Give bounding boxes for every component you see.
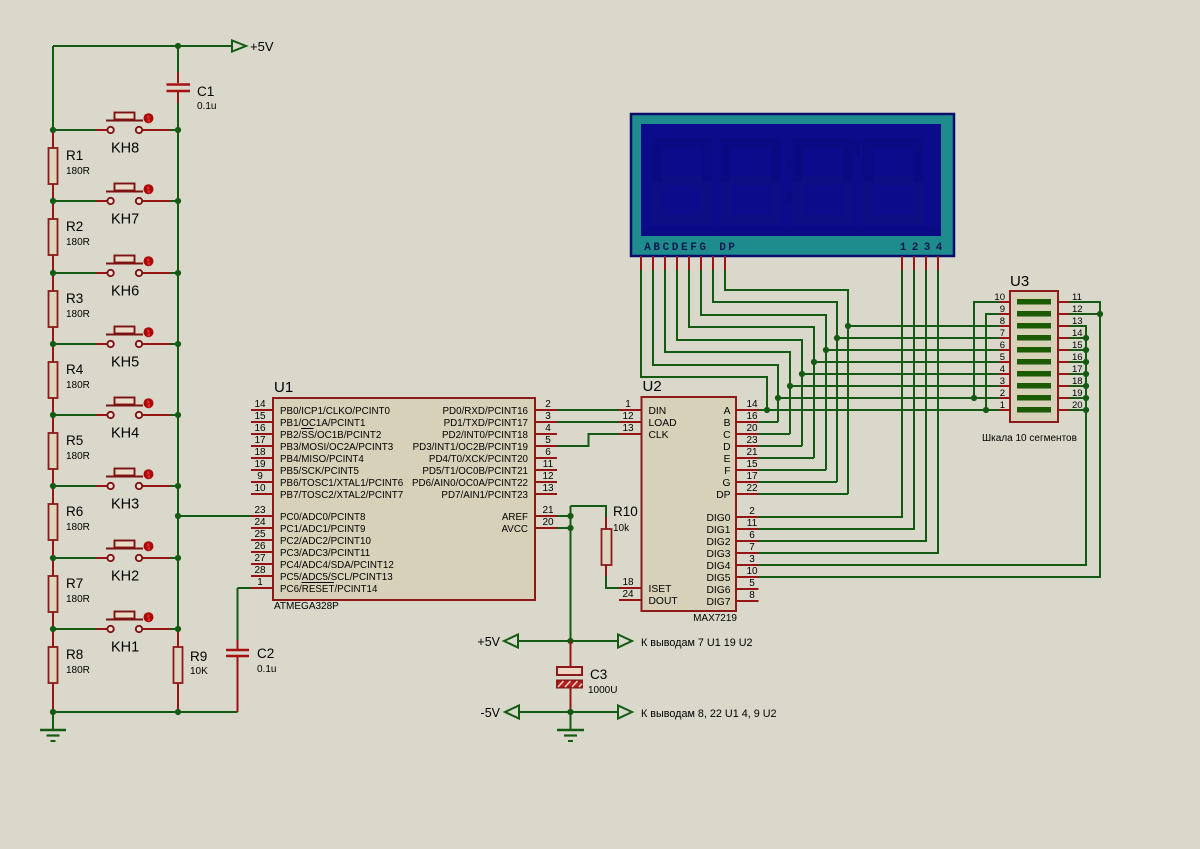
svg-text:24: 24 — [622, 589, 634, 600]
svg-text:B: B — [724, 418, 731, 429]
svg-text:180R: 180R — [66, 665, 90, 676]
svg-text:К выводам 8, 22 U1 4, 9 U2: К выводам 8, 22 U1 4, 9 U2 — [641, 708, 777, 720]
svg-text:3: 3 — [924, 242, 931, 254]
svg-text:AVCC: AVCC — [502, 524, 529, 535]
svg-text:R5: R5 — [66, 433, 83, 448]
svg-text:CLK: CLK — [649, 430, 669, 441]
svg-text:PC0/ADC0/PCINT8: PC0/ADC0/PCINT8 — [280, 512, 366, 523]
svg-text:10k: 10k — [613, 523, 630, 534]
svg-text:C: C — [663, 242, 670, 254]
svg-text:1: 1 — [625, 399, 631, 410]
svg-text:9: 9 — [257, 471, 263, 482]
svg-text:G: G — [722, 478, 730, 489]
svg-text:23: 23 — [254, 505, 266, 516]
svg-text:1: 1 — [1000, 400, 1005, 411]
svg-text:7: 7 — [749, 542, 755, 553]
svg-text:180R: 180R — [66, 380, 90, 391]
svg-text:R10: R10 — [613, 504, 638, 519]
svg-text:PB2/SS/OC1B/PCINT2: PB2/SS/OC1B/PCINT2 — [280, 430, 381, 441]
svg-text:U2: U2 — [643, 378, 662, 395]
svg-text:3: 3 — [545, 411, 551, 422]
svg-text:R7: R7 — [66, 576, 83, 591]
svg-text:180R: 180R — [66, 594, 90, 605]
svg-text:25: 25 — [254, 529, 266, 540]
svg-text:DOUT: DOUT — [649, 596, 679, 607]
svg-text:Шкала 10 сегментов: Шкала 10 сегментов — [982, 433, 1077, 444]
svg-text:5: 5 — [1000, 352, 1005, 363]
svg-text:13: 13 — [622, 423, 634, 434]
svg-text:3: 3 — [1000, 376, 1005, 387]
svg-text:1: 1 — [257, 577, 263, 588]
svg-text:7: 7 — [1000, 328, 1005, 339]
svg-text:PC5/ADC5/SCL/PCINT13: PC5/ADC5/SCL/PCINT13 — [280, 572, 393, 583]
svg-text:PD3/INT1/OC2B/PCINT19: PD3/INT1/OC2B/PCINT19 — [413, 442, 528, 453]
svg-text:PC6/RESET/PCINT14: PC6/RESET/PCINT14 — [280, 584, 378, 595]
svg-text:PD4/T0/XCK/PCINT20: PD4/T0/XCK/PCINT20 — [429, 454, 529, 465]
svg-text:DIG7: DIG7 — [706, 597, 730, 608]
svg-text:DIG4: DIG4 — [706, 561, 730, 572]
svg-text:DIG6: DIG6 — [706, 585, 730, 596]
svg-text:PB1/OC1A/PCINT1: PB1/OC1A/PCINT1 — [280, 418, 365, 429]
svg-text:20: 20 — [746, 423, 758, 434]
svg-text:6: 6 — [1000, 340, 1005, 351]
svg-text:22: 22 — [746, 483, 758, 494]
svg-text:PC1/ADC1/PCINT9: PC1/ADC1/PCINT9 — [280, 524, 365, 535]
svg-text:180R: 180R — [66, 166, 90, 177]
svg-text:DIG0: DIG0 — [706, 513, 730, 524]
svg-text:16: 16 — [254, 423, 266, 434]
svg-text:DP: DP — [716, 490, 730, 501]
svg-text:KH2: KH2 — [111, 569, 139, 585]
svg-text:180R: 180R — [66, 522, 90, 533]
svg-text:2: 2 — [1000, 388, 1005, 399]
svg-text:R2: R2 — [66, 219, 83, 234]
svg-text:28: 28 — [254, 565, 266, 576]
svg-text:DIG5: DIG5 — [706, 573, 730, 584]
svg-text:10: 10 — [746, 566, 758, 577]
svg-text:10: 10 — [254, 483, 266, 494]
svg-text:R8: R8 — [66, 647, 83, 662]
svg-text:KH3: KH3 — [111, 497, 139, 513]
svg-text:R6: R6 — [66, 504, 83, 519]
svg-text:C3: C3 — [590, 667, 607, 682]
svg-text:PC4/ADC4/SDA/PCINT12: PC4/ADC4/SDA/PCINT12 — [280, 560, 394, 571]
svg-text:180R: 180R — [66, 237, 90, 248]
svg-text:26: 26 — [254, 541, 266, 552]
svg-text:2: 2 — [749, 506, 755, 517]
svg-text:KH8: KH8 — [111, 141, 139, 157]
svg-text:0.1u: 0.1u — [197, 101, 216, 112]
svg-text:12: 12 — [622, 411, 634, 422]
svg-text:PB5/SCK/PCINT5: PB5/SCK/PCINT5 — [280, 466, 359, 477]
svg-text:B: B — [653, 242, 660, 254]
svg-text:0.1u: 0.1u — [257, 664, 276, 675]
svg-text:9: 9 — [1000, 304, 1005, 315]
svg-text:ISET: ISET — [649, 584, 673, 595]
svg-text:KH7: KH7 — [111, 212, 139, 228]
svg-text:8: 8 — [749, 590, 755, 601]
svg-text:C2: C2 — [257, 646, 274, 661]
svg-text:D: D — [723, 442, 730, 453]
svg-text:17: 17 — [254, 435, 266, 446]
svg-text:18: 18 — [622, 577, 634, 588]
svg-text:14: 14 — [746, 399, 758, 410]
svg-text:PC2/ADC2/PCINT10: PC2/ADC2/PCINT10 — [280, 536, 371, 547]
svg-text:24: 24 — [254, 517, 266, 528]
svg-text:PC3/ADC3/PCINT11: PC3/ADC3/PCINT11 — [280, 548, 370, 559]
svg-text:14: 14 — [254, 399, 266, 410]
svg-text:A: A — [724, 406, 731, 417]
svg-text:19: 19 — [254, 459, 266, 470]
svg-text:KH6: KH6 — [111, 284, 139, 300]
svg-text:DIN: DIN — [649, 406, 667, 417]
svg-text:13: 13 — [542, 483, 554, 494]
svg-text:4: 4 — [936, 242, 943, 254]
svg-text:+5V: +5V — [250, 39, 274, 54]
svg-text:11: 11 — [543, 459, 554, 470]
svg-text:KH1: KH1 — [111, 640, 139, 656]
svg-text:C1: C1 — [197, 84, 214, 99]
svg-text:PD5/T1/OC0B/PCINT21: PD5/T1/OC0B/PCINT21 — [422, 466, 528, 477]
svg-text:8: 8 — [1000, 316, 1005, 327]
svg-text:DIG1: DIG1 — [706, 525, 730, 536]
svg-text:PD0/RXD/PCINT16: PD0/RXD/PCINT16 — [443, 406, 529, 417]
svg-text:PD2/INT0/PCINT18: PD2/INT0/PCINT18 — [442, 430, 529, 441]
svg-text:PB7/TOSC2/XTAL2/PCINT7: PB7/TOSC2/XTAL2/PCINT7 — [280, 490, 403, 501]
svg-text:R4: R4 — [66, 362, 84, 377]
svg-text:ATMEGA328P: ATMEGA328P — [274, 601, 339, 612]
svg-text:R1: R1 — [66, 148, 83, 163]
svg-text:PB6/TOSC1/XTAL1/PCINT6: PB6/TOSC1/XTAL1/PCINT6 — [280, 478, 404, 489]
svg-text:12: 12 — [542, 471, 554, 482]
svg-text:A: A — [644, 242, 651, 254]
svg-text:10K: 10K — [190, 666, 208, 677]
svg-text:27: 27 — [254, 553, 266, 564]
svg-text:20: 20 — [542, 517, 554, 528]
svg-text:5: 5 — [545, 435, 551, 446]
svg-text:P: P — [728, 242, 735, 254]
svg-text:KH5: KH5 — [111, 355, 139, 371]
svg-text:-5V: -5V — [481, 706, 501, 720]
svg-text:6: 6 — [545, 447, 551, 458]
svg-text:4: 4 — [1000, 364, 1005, 375]
svg-text:+5V: +5V — [477, 635, 500, 649]
svg-text:DIG3: DIG3 — [706, 549, 730, 560]
svg-text:23: 23 — [746, 435, 758, 446]
svg-text:KH4: KH4 — [111, 426, 139, 442]
svg-text:1: 1 — [900, 242, 907, 254]
svg-text:PD1/TXD/PCINT17: PD1/TXD/PCINT17 — [444, 418, 528, 429]
svg-text:15: 15 — [746, 459, 758, 470]
svg-text:180R: 180R — [66, 309, 90, 320]
svg-text:R9: R9 — [190, 649, 207, 664]
svg-text:PB4/MISO/PCINT4: PB4/MISO/PCINT4 — [280, 454, 364, 465]
svg-text:17: 17 — [746, 471, 758, 482]
svg-text:D: D — [672, 242, 679, 254]
svg-text:PB0/ICP1/CLKO/PCINT0: PB0/ICP1/CLKO/PCINT0 — [280, 406, 391, 417]
svg-text:4: 4 — [545, 423, 551, 434]
svg-text:15: 15 — [254, 411, 266, 422]
svg-text:AREF: AREF — [502, 512, 528, 523]
svg-text:2: 2 — [912, 242, 919, 254]
svg-text:DIG2: DIG2 — [706, 537, 730, 548]
svg-text:E: E — [724, 454, 731, 465]
svg-text:PD6/AIN0/OC0A/PCINT22: PD6/AIN0/OC0A/PCINT22 — [412, 478, 528, 489]
svg-text:21: 21 — [542, 505, 554, 516]
svg-text:16: 16 — [746, 411, 758, 422]
svg-text:К выводам 7 U1 19 U2: К выводам 7 U1 19 U2 — [641, 637, 753, 649]
svg-text:18: 18 — [254, 447, 266, 458]
svg-text:21: 21 — [746, 447, 758, 458]
svg-text:C: C — [723, 430, 731, 441]
svg-text:G: G — [699, 242, 706, 254]
svg-text:1000U: 1000U — [588, 685, 617, 696]
svg-text:3: 3 — [749, 554, 755, 565]
svg-text:6: 6 — [749, 530, 755, 541]
svg-text:LOAD: LOAD — [649, 418, 677, 429]
svg-text:PB3/MOSI/OC2A/PCINT3: PB3/MOSI/OC2A/PCINT3 — [280, 442, 394, 453]
svg-text:180R: 180R — [66, 451, 90, 462]
svg-text:PD7/AIN1/PCINT23: PD7/AIN1/PCINT23 — [441, 490, 528, 501]
svg-text:2: 2 — [545, 399, 551, 410]
svg-text:R3: R3 — [66, 291, 83, 306]
svg-text:11: 11 — [747, 518, 758, 529]
svg-text:U3: U3 — [1010, 273, 1029, 290]
svg-text:U1: U1 — [274, 379, 293, 396]
svg-text:F: F — [690, 242, 697, 254]
svg-text:MAX7219: MAX7219 — [693, 613, 737, 624]
svg-text:E: E — [681, 242, 688, 254]
svg-text:F: F — [724, 466, 730, 477]
svg-text:5: 5 — [749, 578, 755, 589]
svg-text:D: D — [719, 242, 726, 254]
